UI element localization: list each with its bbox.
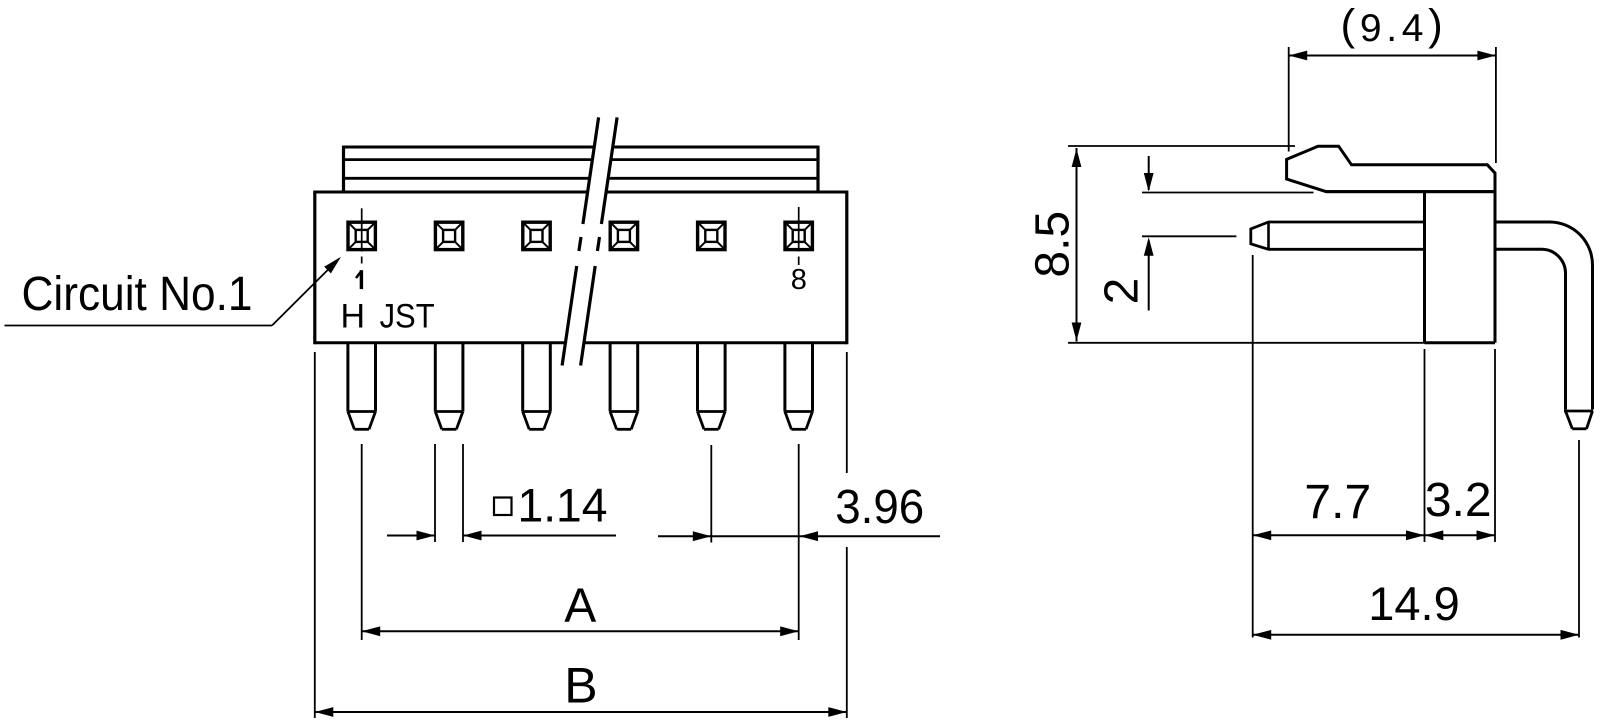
svg-text:H: H — [341, 298, 366, 336]
svg-text:8.5: 8.5 — [1027, 211, 1080, 278]
svg-text:(9.4): (9.4) — [1340, 1, 1447, 51]
svg-text:3.96: 3.96 — [835, 481, 924, 534]
svg-text:Circuit No.1: Circuit No.1 — [22, 268, 253, 321]
svg-text:A: A — [564, 580, 596, 633]
svg-text:14.9: 14.9 — [1368, 577, 1459, 630]
svg-text:8: 8 — [791, 264, 807, 296]
svg-text:JST: JST — [380, 298, 435, 336]
svg-text:7.7: 7.7 — [1304, 476, 1371, 529]
svg-text:1.14: 1.14 — [518, 479, 608, 532]
svg-text:3.2: 3.2 — [1425, 474, 1492, 527]
svg-text:B: B — [564, 657, 597, 713]
svg-text:2: 2 — [1096, 278, 1149, 305]
